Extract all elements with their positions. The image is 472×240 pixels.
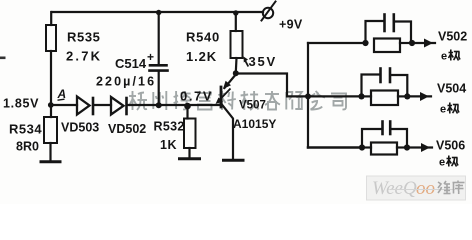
wire node A to VD503 bbox=[51, 104, 77, 106]
svg-text:R534: R534 bbox=[9, 122, 42, 137]
ground under collector bbox=[224, 159, 244, 162]
svg-text:e: e bbox=[440, 104, 446, 116]
svg-text:R535: R535 bbox=[67, 30, 100, 45]
wire branch 2 bbox=[308, 95, 361, 97]
wire emitter node to bus bbox=[236, 74, 308, 97]
glyph ji (pole) after e, V506 bbox=[447, 156, 459, 167]
wire bus vertical bbox=[307, 43, 309, 148]
svg-text:C514: C514 bbox=[115, 56, 147, 71]
arrowhead output V502 bbox=[424, 39, 433, 48]
capacitor of V506 network bbox=[362, 129, 382, 148]
watermark weeqoo box bbox=[367, 176, 466, 200]
junction dot bus bbox=[305, 93, 311, 99]
resistor R540 bbox=[235, 12, 237, 31]
glyph ku of weiku bbox=[453, 181, 465, 195]
svg-text:1.85V: 1.85V bbox=[3, 97, 39, 111]
node A junction dot bbox=[48, 102, 54, 108]
capacitor C514 bbox=[158, 12, 160, 64]
diode VD503 bbox=[77, 97, 90, 115]
resistor of V506 network bbox=[371, 143, 397, 155]
svg-text:1.2K: 1.2K bbox=[186, 49, 217, 64]
ground under R534 bbox=[41, 160, 60, 163]
annotation arrow 0.7V bbox=[219, 89, 231, 102]
svg-text:V504: V504 bbox=[437, 82, 466, 96]
svg-text:2.7K: 2.7K bbox=[66, 49, 102, 64]
resistor R535 bbox=[46, 25, 56, 51]
transistor V507 collector bbox=[222, 104, 234, 159]
svg-text:V506: V506 bbox=[436, 139, 465, 153]
svg-text:oo: oo bbox=[416, 178, 435, 199]
transistor emitter arrowhead bbox=[223, 81, 231, 89]
junction dot rail R540 bbox=[233, 10, 238, 15]
wire arrow V506 bbox=[407, 146, 432, 148]
resistor R532 bbox=[186, 106, 188, 119]
wire R534 to ground bbox=[49, 143, 51, 161]
transistor V507 base bar bbox=[220, 87, 223, 107]
tick under node A label bbox=[58, 99, 65, 100]
glyph ji (pole) after e, V502 bbox=[449, 50, 461, 61]
junction dot R532 top bbox=[184, 103, 191, 110]
wire branch 1 bbox=[308, 42, 365, 44]
svg-text:A1015Y: A1015Y bbox=[233, 117, 276, 131]
junction dots V502 network bbox=[362, 40, 368, 46]
watermark hangzhou company gray text bbox=[129, 91, 346, 110]
svg-text:WeeQ: WeeQ bbox=[372, 178, 417, 199]
svg-text:+: + bbox=[147, 50, 154, 64]
terminal +9V bbox=[263, 8, 273, 18]
wire VD503 to VD502 bbox=[94, 104, 111, 106]
wire R535 to node A bbox=[50, 51, 52, 117]
svg-text:e: e bbox=[441, 51, 447, 63]
diode VD502 bbox=[111, 97, 124, 115]
svg-text:VD503: VD503 bbox=[61, 121, 99, 135]
svg-text:220µ/16: 220µ/16 bbox=[96, 75, 156, 89]
arrowhead output V504 bbox=[420, 92, 429, 101]
wire arrow V504 bbox=[407, 95, 431, 97]
svg-text:VD502: VD502 bbox=[108, 122, 146, 136]
svg-text:0.7V: 0.7V bbox=[180, 89, 213, 104]
wire top rail bbox=[52, 11, 263, 13]
junction dot emitter node bbox=[233, 70, 239, 76]
capacitor of V504 network bbox=[362, 75, 381, 97]
svg-text:1K: 1K bbox=[160, 138, 177, 152]
wire left spine bbox=[50, 12, 52, 25]
wire branch 3 bbox=[308, 146, 362, 149]
wire VD502 to base bbox=[128, 104, 221, 106]
wire arrow V502 bbox=[412, 42, 435, 44]
transistor V507 emitter bbox=[225, 75, 236, 89]
scan mark left edge bbox=[0, 57, 6, 60]
arrowhead output V506 bbox=[421, 143, 430, 152]
resistor of V502 network bbox=[374, 39, 400, 53]
svg-text:e: e bbox=[439, 157, 445, 169]
resistor of V504 network bbox=[371, 91, 398, 106]
svg-text:V502: V502 bbox=[438, 30, 467, 44]
svg-text:35V: 35V bbox=[249, 54, 278, 69]
svg-text:+9V: +9V bbox=[279, 18, 303, 32]
svg-text:R532: R532 bbox=[154, 120, 185, 134]
glyph ji (pole) after e, V504 bbox=[448, 103, 460, 114]
svg-text:8R0: 8R0 bbox=[16, 140, 39, 154]
junction dots V506 network bbox=[359, 144, 365, 150]
svg-text:R540: R540 bbox=[186, 30, 220, 45]
glyph wei of weiku bbox=[438, 181, 465, 195]
capacitor of V502 network bbox=[366, 21, 385, 43]
junction dots V504 network bbox=[358, 93, 364, 99]
svg-text:V507: V507 bbox=[239, 100, 266, 112]
annotation arrow 35V bbox=[245, 60, 249, 67]
junction dot rail C514 bbox=[156, 10, 161, 15]
resistor R534 bbox=[44, 117, 57, 143]
svg-text:A: A bbox=[57, 87, 67, 101]
junction dot C514 bottom bbox=[156, 102, 162, 108]
ground under R532 bbox=[180, 157, 200, 160]
